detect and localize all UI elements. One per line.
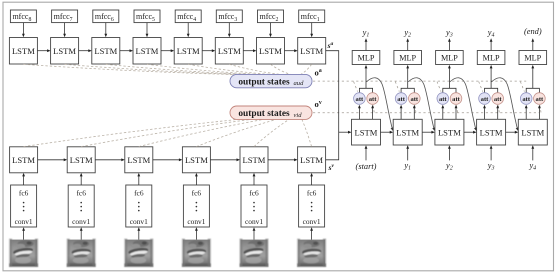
decoder LSTM d4 <box>477 119 506 145</box>
attention module att-aud 2 <box>395 93 407 105</box>
dashed drop o^a into att-aud 2 <box>395 82 399 92</box>
context feed curve column 1 to decoder LSTM d2 <box>367 78 393 129</box>
svg-text:y3: y3 <box>445 28 453 39</box>
svg-text:y2: y2 <box>403 28 411 39</box>
svg-text:fc6: fc6 <box>76 188 86 197</box>
dashed link video LSTM v1 to vid output states <box>24 120 236 147</box>
audio encoder LSTM a7 <box>257 38 285 65</box>
arrow mfcc4 to audio LSTM a5 <box>187 23 190 38</box>
svg-text:fc6: fc6 <box>134 188 144 197</box>
svg-text:att: att <box>356 96 364 103</box>
mouth crop input image col 3 <box>124 239 153 267</box>
arrow previous output into decoder LSTM d2 <box>406 145 409 160</box>
dashed link video LSTM v5 to vid output states <box>254 120 289 147</box>
dashed link audio LSTM a3 to aud output states <box>106 64 255 74</box>
arrow CNN stack to video LSTM v5 <box>253 173 256 185</box>
dashed rise o^v into att-vid 1 <box>373 105 374 112</box>
svg-text:LSTM: LSTM <box>185 155 208 165</box>
video encoder LSTM v1 <box>10 147 38 173</box>
dashed rise o^v into att-vid 2 <box>415 105 416 112</box>
arrow mfcc7 to audio LSTM a2 <box>63 23 66 38</box>
svg-text:LSTM: LSTM <box>12 46 35 56</box>
dashed link audio LSTM a2 to aud output states <box>65 64 246 74</box>
audio encoder LSTM a3 <box>92 38 120 65</box>
arrow MLP 2 to output <box>406 38 409 50</box>
dashed rise o^v into att-vid 3 <box>456 105 457 112</box>
attention module att-vid 1 <box>367 93 379 105</box>
arrow mouth image to CNN stack col 3 <box>137 227 140 239</box>
wire video LSTM v5 to v6 <box>268 158 298 161</box>
attention module att-aud 1 <box>354 93 366 105</box>
arrow previous output into decoder LSTM d5 <box>531 145 534 160</box>
svg-text:conv1: conv1 <box>187 217 205 226</box>
svg-text:MLP: MLP <box>399 54 416 63</box>
decoder LSTM d1 <box>352 119 381 145</box>
arrow mfcc2 to audio LSTM a7 <box>269 23 272 38</box>
attention module att-aud 4 <box>479 93 491 105</box>
dashed link audio LSTM a5 to aud output states <box>188 64 273 74</box>
CNN stack box fc6-conv1 col 2 <box>68 185 94 227</box>
audio encoder LSTM a6 <box>215 38 243 65</box>
arrow mfcc6 to audio LSTM a3 <box>104 23 107 38</box>
arrow MLP 3 to output <box>448 38 451 50</box>
svg-text:LSTM: LSTM <box>12 155 35 165</box>
mouth crop input image col 2 <box>67 239 96 267</box>
arrow CNN stack to video LSTM v4 <box>195 173 198 185</box>
CNN stack box fc6-conv1 col 3 <box>126 185 152 227</box>
CNN stack box fc6-conv1 col 5 <box>241 185 267 227</box>
svg-text:LSTM: LSTM <box>70 155 93 165</box>
arrows decoder LSTM d2 to attention pair <box>400 105 416 120</box>
wire video LSTM v4 to v5 <box>210 158 240 161</box>
audio encoder LSTM a2 <box>51 38 79 65</box>
wire audio LSTM a4 to a5 <box>161 49 174 52</box>
svg-text:att: att <box>410 96 418 103</box>
arrow CNN stack to video LSTM v6 <box>310 173 313 185</box>
audio encoder LSTM a8 <box>298 38 326 65</box>
svg-text:sa: sa <box>327 41 334 50</box>
svg-text:att: att <box>452 96 460 103</box>
wire attention pair 1 to MLP 1 <box>359 65 372 93</box>
arrow CNN stack to video LSTM v3 <box>137 173 140 185</box>
context feed curve column 4 to decoder LSTM d5 <box>492 78 518 129</box>
mouth crop input image col 5 <box>240 239 269 267</box>
svg-text:att: att <box>369 96 377 103</box>
arrow MLP 4 to output <box>490 38 493 50</box>
dashed rise o^v into att-vid 4 <box>498 105 499 112</box>
attention module att-vid 5 <box>534 93 546 105</box>
svg-text:MLP: MLP <box>483 54 500 63</box>
svg-text:(start): (start) <box>356 162 377 171</box>
svg-text:att: att <box>494 96 502 103</box>
svg-text:fc6: fc6 <box>19 188 29 197</box>
svg-text:conv1: conv1 <box>303 217 321 226</box>
svg-text:att: att <box>536 96 544 103</box>
svg-text:fc6: fc6 <box>307 188 317 197</box>
wire attention pair 3 to MLP 3 <box>443 65 456 93</box>
CNN stack box fc6-conv1 col 4 <box>183 185 209 227</box>
arrow previous output into decoder LSTM d4 <box>490 145 493 160</box>
CNN stack box fc6-conv1 col 6 <box>299 185 325 227</box>
wire audio LSTM a3 to a4 <box>120 49 133 52</box>
svg-text:LSTM: LSTM <box>259 46 282 56</box>
dashed link video LSTM v6 to vid output states <box>302 120 312 147</box>
video encoder LSTM v5 <box>240 147 268 173</box>
svg-text:att: att <box>522 96 530 103</box>
dashed link audio LSTM a8 to aud output states <box>300 64 311 74</box>
arrow mouth image to CNN stack col 6 <box>310 227 313 239</box>
dashed bus o^v to video attention modules <box>313 112 539 114</box>
svg-text:LSTM: LSTM <box>521 128 544 138</box>
dashed link video LSTM v3 to vid output states <box>139 120 263 147</box>
svg-text:LSTM: LSTM <box>218 46 241 56</box>
output states aud stadium <box>230 74 312 87</box>
attention module att-aud 5 <box>520 93 532 105</box>
arrow previous output into decoder LSTM d1 <box>365 145 368 160</box>
arrow mouth image to CNN stack col 5 <box>253 227 256 239</box>
svg-text:LSTM: LSTM <box>300 155 323 165</box>
MLP box 3 <box>436 51 464 65</box>
output states vid stadium <box>230 106 312 119</box>
wire attention pair 2 to MLP 2 <box>401 65 414 93</box>
context feed curve column 3 to decoder LSTM d4 <box>450 78 476 129</box>
svg-text:att: att <box>439 96 447 103</box>
svg-text:LSTM: LSTM <box>438 128 461 138</box>
arrows decoder LSTM d1 to attention pair <box>358 105 374 120</box>
svg-text:(end): (end) <box>524 27 542 36</box>
svg-text:y1: y1 <box>403 161 411 172</box>
svg-text:y4: y4 <box>528 161 536 172</box>
svg-text:vid: vid <box>294 112 303 119</box>
input feature box mfcc5 <box>134 10 160 23</box>
svg-text:y2: y2 <box>445 161 453 172</box>
arrow mouth image to CNN stack col 4 <box>195 227 198 239</box>
wire attention pair 5 to MLP 5 <box>526 65 539 93</box>
svg-text:LSTM: LSTM <box>127 155 150 165</box>
wire video LSTM v3 to v4 <box>153 158 183 161</box>
MLP box 2 <box>394 51 422 65</box>
wire video LSTM v1 to v2 <box>38 158 68 161</box>
video encoder LSTM v6 <box>298 147 326 173</box>
wire decoder LSTM d3 to d4 <box>464 131 477 134</box>
attention module att-vid 4 <box>492 93 504 105</box>
input feature box mfcc4 <box>175 10 201 23</box>
svg-text:LSTM: LSTM <box>136 46 159 56</box>
svg-text:y4: y4 <box>487 28 495 39</box>
dashed bus o^a to audio attention modules <box>313 80 526 82</box>
decoder LSTM d5 <box>518 119 547 145</box>
wire audio LSTM a2 to a3 <box>79 49 92 52</box>
svg-text:aud: aud <box>294 80 305 87</box>
dashed link audio LSTM a6 to aud output states <box>229 64 282 74</box>
svg-text:y1: y1 <box>362 28 370 39</box>
MLP box 4 <box>477 51 505 65</box>
input feature box mfcc8 <box>10 10 36 23</box>
arrow mfcc1 to audio LSTM a8 <box>310 23 313 38</box>
svg-text:output states: output states <box>238 109 290 119</box>
svg-text:LSTM: LSTM <box>300 46 323 56</box>
svg-text:MLP: MLP <box>441 54 458 63</box>
arrow MLP 1 to output <box>365 38 368 50</box>
svg-text:sv: sv <box>328 163 335 172</box>
attention module att-vid 2 <box>409 93 421 105</box>
svg-text:att: att <box>397 96 405 103</box>
svg-text:conv1: conv1 <box>72 217 90 226</box>
audio encoder LSTM a4 <box>133 38 161 65</box>
wire attention pair 4 to MLP 4 <box>485 65 498 93</box>
dashed link audio LSTM a1 to aud output states <box>23 64 236 74</box>
arrow MLP 5 to output <box>531 38 534 50</box>
dashed link video LSTM v2 to vid output states <box>81 120 249 147</box>
svg-text:y3: y3 <box>487 161 495 172</box>
arrow mouth image to CNN stack col 1 <box>22 227 25 239</box>
CNN stack box fc6-conv1 col 1 <box>11 185 37 227</box>
video encoder LSTM v3 <box>125 147 153 173</box>
wire s^a from last audio LSTM <box>326 51 339 160</box>
mouth crop input image col 4 <box>182 239 211 267</box>
video encoder LSTM v2 <box>67 147 95 173</box>
arrow encoder states into decoder LSTM d1 <box>339 131 352 134</box>
attention module att-vid 3 <box>450 93 462 105</box>
dashed link audio LSTM a4 to aud output states <box>147 64 264 74</box>
dashed drop o^a into att-aud 4 <box>479 82 483 92</box>
input feature box mfcc7 <box>52 10 78 23</box>
mouth crop input image col 1 <box>9 239 38 267</box>
wire audio LSTM a1 to a2 <box>37 49 50 52</box>
svg-text:conv1: conv1 <box>15 217 33 226</box>
svg-text:fc6: fc6 <box>192 188 202 197</box>
dashed drop o^a into att-aud 1 <box>354 82 358 92</box>
attention module att-aud 3 <box>437 93 449 105</box>
svg-text:ov: ov <box>315 99 322 109</box>
svg-text:output states: output states <box>238 77 290 87</box>
dashed rise o^v into att-vid 5 <box>540 105 541 112</box>
input feature box mfcc1 <box>299 10 325 23</box>
svg-text:LSTM: LSTM <box>355 128 378 138</box>
arrow CNN stack to video LSTM v1 <box>22 173 25 185</box>
wire audio LSTM a5 to a6 <box>202 49 215 52</box>
svg-text:LSTM: LSTM <box>53 46 76 56</box>
arrows decoder LSTM d5 to attention pair <box>525 105 541 120</box>
svg-text:LSTM: LSTM <box>94 46 117 56</box>
svg-text:oa: oa <box>315 67 322 77</box>
input feature box mfcc6 <box>93 10 119 23</box>
arrow mfcc8 to audio LSTM a1 <box>22 23 25 38</box>
dashed drop o^a into att-aud 3 <box>437 82 441 92</box>
svg-text:fc6: fc6 <box>249 188 259 197</box>
svg-text:MLP: MLP <box>358 54 375 63</box>
MLP box 5 <box>519 51 547 65</box>
dashed link audio LSTM a7 to aud output states <box>271 64 292 74</box>
mouth crop input image col 6 <box>297 239 326 267</box>
audio encoder LSTM a1 <box>9 38 37 65</box>
decoder LSTM d2 <box>393 119 422 145</box>
wire decoder LSTM d1 to d2 <box>381 131 394 134</box>
svg-text:LSTM: LSTM <box>243 155 266 165</box>
input feature box mfcc2 <box>258 10 284 23</box>
arrow mfcc5 to audio LSTM a4 <box>146 23 149 38</box>
svg-text:conv1: conv1 <box>245 217 263 226</box>
wire decoder LSTM d4 to d5 <box>506 131 519 134</box>
audio encoder LSTM a5 <box>174 38 202 65</box>
wire audio LSTM a6 to a7 <box>243 49 256 52</box>
arrows decoder LSTM d3 to attention pair <box>441 105 457 120</box>
svg-text:att: att <box>481 96 489 103</box>
decoder LSTM d3 <box>435 119 464 145</box>
svg-text:conv1: conv1 <box>130 217 148 226</box>
wire audio LSTM a7 to a8 <box>285 49 298 52</box>
svg-text:MLP: MLP <box>524 54 541 63</box>
context feed curve column 2 to decoder LSTM d3 <box>408 78 434 129</box>
arrows decoder LSTM d4 to attention pair <box>483 105 499 120</box>
arrow mfcc3 to audio LSTM a6 <box>228 23 231 38</box>
video encoder LSTM v4 <box>182 147 210 173</box>
arrow mouth image to CNN stack col 2 <box>80 227 83 239</box>
svg-text:LSTM: LSTM <box>396 128 419 138</box>
wire video LSTM v2 to v3 <box>95 158 125 161</box>
svg-text:LSTM: LSTM <box>480 128 503 138</box>
dashed drop o^a into att-aud 5 <box>520 82 524 92</box>
dashed link video LSTM v4 to vid output states <box>196 120 275 147</box>
arrow CNN stack to video LSTM v2 <box>80 173 83 185</box>
arrow previous output into decoder LSTM d3 <box>448 145 451 160</box>
MLP box 1 <box>352 51 380 65</box>
svg-text:LSTM: LSTM <box>177 46 200 56</box>
input feature box mfcc3 <box>216 10 242 23</box>
wire decoder LSTM d2 to d3 <box>422 131 435 134</box>
